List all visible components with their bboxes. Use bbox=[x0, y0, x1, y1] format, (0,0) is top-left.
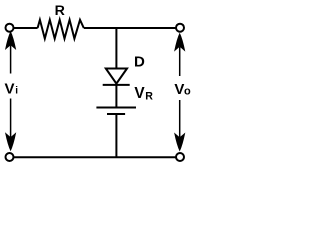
svg-text:V: V bbox=[5, 81, 15, 98]
arrow up (Vo plus) bbox=[174, 33, 185, 52]
arrow up (Vi plus) bbox=[5, 31, 16, 50]
wire: diode to battery bbox=[115, 85, 117, 108]
wire: battery to bottom rail bbox=[115, 114, 117, 157]
terminal circle top-left bbox=[6, 24, 14, 32]
battery VR long plate bbox=[96, 107, 136, 109]
svg-text:V: V bbox=[134, 85, 145, 102]
wire top: left terminal to resistor bbox=[13, 27, 38, 29]
wire top: resistor to right terminal bbox=[84, 27, 177, 29]
svg-text:V: V bbox=[174, 81, 184, 98]
terminal circle bottom-left bbox=[6, 153, 14, 161]
svg-text:i: i bbox=[15, 86, 18, 97]
svg-text:D: D bbox=[134, 54, 145, 71]
terminal circle top-right bbox=[176, 24, 184, 32]
wire bottom rail bbox=[13, 156, 177, 158]
resistor R bbox=[38, 20, 84, 39]
arrow down (Vi minus) bbox=[10, 99, 12, 138]
arrow down (Vo minus) bbox=[179, 100, 181, 137]
svg-text:o: o bbox=[184, 85, 191, 97]
svg-text:R: R bbox=[145, 90, 153, 102]
diode D bbox=[106, 69, 127, 84]
battery VR short plate bbox=[107, 113, 125, 115]
terminal circle bottom-right bbox=[176, 153, 184, 161]
wire: branch from top node down to diode bbox=[115, 28, 117, 69]
svg-text:R: R bbox=[55, 3, 65, 19]
